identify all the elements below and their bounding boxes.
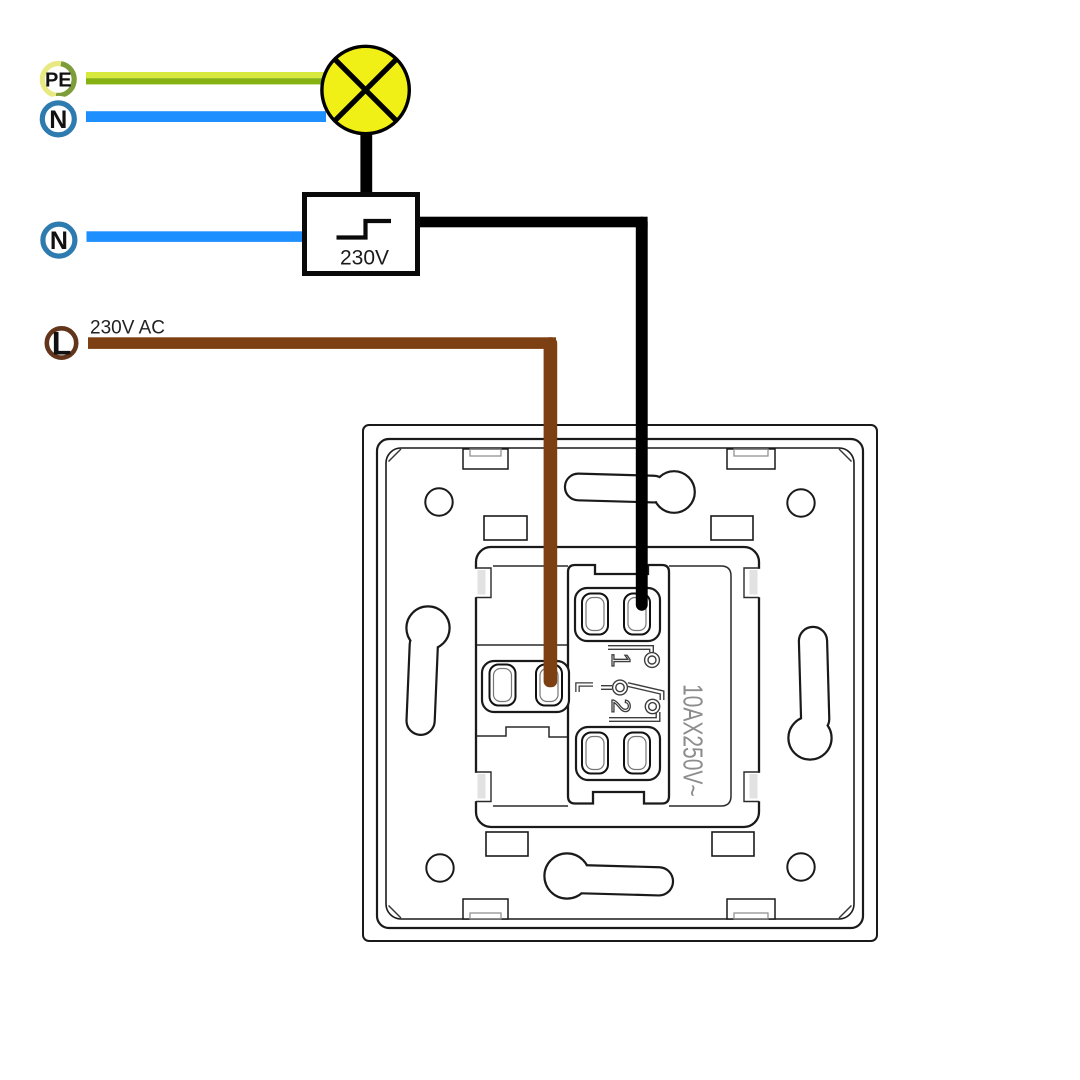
screw terminal left-2 hole (L) (536, 665, 562, 706)
terminal PE (36, 58, 80, 102)
svg-text:230V AC: 230V AC (90, 318, 165, 339)
svg-text:1: 1 (606, 653, 636, 667)
corner chamfer bottom-right (839, 906, 852, 919)
frame notch right-bottom (742, 772, 764, 802)
claw bottom-left (486, 832, 528, 856)
claw top-right (711, 516, 753, 540)
terminal block bottom (576, 727, 660, 780)
bottom edge tab right (727, 899, 775, 919)
wire black vertical drop to terminal (636, 217, 648, 611)
svg-text:N: N (49, 106, 67, 134)
top edge tab right (727, 449, 775, 469)
svg-text:PE: PE (45, 70, 72, 92)
wire PE (green/yellow) (86, 72, 325, 84)
wavy slot top (566, 472, 694, 511)
svg-text:2: 2 (606, 699, 636, 713)
screw hole top-right (787, 489, 814, 516)
terminal block left (482, 661, 569, 712)
screw hole top-left (425, 488, 452, 515)
wire L brown horizontal (88, 337, 556, 349)
frame notch right-top (742, 568, 764, 598)
svg-text:230V: 230V (340, 247, 389, 270)
switch S1 box (305, 195, 418, 274)
screw hole bottom-right (787, 853, 814, 880)
switch module body (568, 565, 669, 804)
corner chamfer top-left (389, 449, 402, 462)
screw terminal bottom-left hole (582, 733, 608, 774)
contact symbol 1 bracket (608, 648, 652, 653)
frame notch left-top (471, 568, 493, 598)
L mark (578, 685, 594, 693)
switch S1 step symbol (337, 221, 392, 238)
frame step below L-block (477, 727, 568, 737)
screw terminal top-left hole (582, 594, 608, 635)
claw top-left (484, 516, 527, 540)
plate inner face (386, 448, 854, 919)
screw hole bottom-left (426, 854, 453, 881)
wavy slot left (407, 608, 448, 735)
frame inner contour bottom connector left (493, 805, 568, 807)
frame bridge above L-block (477, 644, 568, 646)
svg-text:10AX250V~: 10AX250V~ (677, 684, 707, 797)
svg-text:N: N (50, 227, 68, 255)
frame inner contour right (669, 566, 731, 806)
wire N2 (blue to switch) (87, 231, 306, 242)
terminal N (switch) (36, 217, 82, 263)
screw terminal left-1 hole (490, 665, 516, 706)
wire L brown vertical drop to terminal (544, 337, 558, 687)
svg-text:L: L (52, 326, 72, 362)
plate middle frame (377, 439, 863, 928)
frame inner contour top connector left (493, 565, 568, 567)
screw terminal top-right hole (624, 594, 650, 635)
wavy slot bottom (546, 855, 673, 898)
corner chamfer bottom-left (389, 906, 402, 919)
frame notch left-bottom (471, 772, 493, 802)
terminal block top (575, 588, 660, 641)
wire N1 (blue to lamp) (86, 111, 326, 122)
wire switch-to-plate black horizontal (417, 217, 648, 228)
wire lamp-to-switch vertical (360, 130, 372, 197)
terminal L (40, 321, 84, 365)
contact symbol 2 lever and pins (601, 680, 662, 719)
wavy slot right (790, 628, 831, 759)
screw terminal bottom-right hole (624, 733, 650, 774)
plate outer frame (363, 425, 877, 941)
mechanism frame (476, 547, 759, 827)
corner chamfer top-right (839, 449, 852, 462)
top edge tab left (463, 449, 508, 469)
contact symbol 1 pin circle (645, 653, 660, 668)
bottom edge tab left (463, 899, 508, 919)
terminal N (lamp) (35, 96, 81, 142)
lamp E1 (322, 46, 409, 133)
claw bottom-right (712, 832, 754, 856)
